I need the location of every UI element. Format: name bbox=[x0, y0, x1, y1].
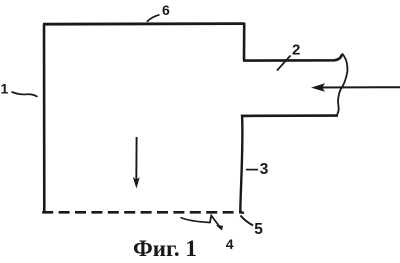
inlet flow arrow shaft bbox=[316, 86, 400, 88]
leader line for 6 bbox=[147, 15, 160, 22]
left wall of chamber (1) bbox=[43, 25, 46, 213]
leader arrowhead for 4 bbox=[216, 225, 223, 230]
leader line for 1 bbox=[12, 92, 38, 97]
svg-text:3: 3 bbox=[260, 161, 269, 178]
wavy break line at inlet open end bbox=[337, 54, 347, 115]
inlet flow arrowhead bbox=[311, 83, 325, 92]
top wall of chamber (6) bbox=[43, 22, 245, 25]
svg-text:1: 1 bbox=[1, 81, 9, 97]
svg-text:2: 2 bbox=[292, 41, 300, 58]
leader arrow for 4 (curved stroke) bbox=[181, 216, 220, 227]
downward flow arrowhead bbox=[133, 177, 140, 189]
leader line for 2 bbox=[277, 56, 291, 71]
right wall upper segment above inlet bbox=[243, 23, 246, 61]
svg-text:Фиг. 1: Фиг. 1 bbox=[133, 236, 197, 261]
inlet channel top wall (2) bbox=[243, 54, 342, 61]
leader line for 5 bbox=[241, 216, 254, 226]
svg-text:6: 6 bbox=[162, 2, 170, 18]
leader line for 3 bbox=[246, 169, 258, 171]
dashed bottom wall (4,5) bbox=[42, 211, 242, 214]
inlet channel bottom wall bbox=[242, 114, 339, 117]
svg-text:4: 4 bbox=[226, 236, 234, 252]
downward flow arrow shaft bbox=[135, 137, 137, 182]
svg-text:5: 5 bbox=[254, 221, 263, 238]
right wall lower segment (3) bbox=[240, 115, 244, 213]
